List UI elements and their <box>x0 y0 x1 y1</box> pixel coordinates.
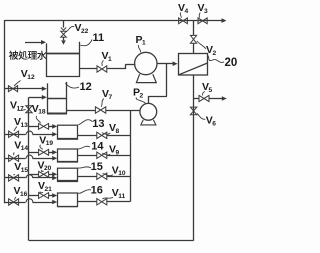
svg-text:3: 3 <box>204 8 208 15</box>
svg-text:4: 4 <box>185 8 189 15</box>
svg-text:17: 17 <box>17 105 25 112</box>
svg-text:12: 12 <box>27 74 35 81</box>
svg-text:15: 15 <box>21 167 29 174</box>
svg-text:22: 22 <box>81 28 89 35</box>
svg-text:19: 19 <box>46 140 54 147</box>
svg-text:11: 11 <box>118 193 125 200</box>
svg-text:8: 8 <box>116 128 120 135</box>
svg-text:2: 2 <box>213 50 217 57</box>
svg-text:13: 13 <box>92 118 104 130</box>
svg-text:20: 20 <box>44 165 52 172</box>
svg-text:20: 20 <box>225 57 238 69</box>
svg-text:5: 5 <box>209 87 213 94</box>
svg-text:11: 11 <box>93 32 105 44</box>
svg-text:12: 12 <box>80 81 92 93</box>
svg-text:14: 14 <box>21 145 29 152</box>
svg-text:14: 14 <box>91 140 104 152</box>
svg-text:15: 15 <box>91 161 103 173</box>
svg-text:18: 18 <box>38 109 46 116</box>
svg-text:6: 6 <box>212 120 216 127</box>
svg-text:16: 16 <box>91 184 103 196</box>
svg-text:13: 13 <box>21 122 29 129</box>
svg-text:9: 9 <box>116 149 120 156</box>
svg-text:21: 21 <box>45 186 53 193</box>
svg-text:2: 2 <box>140 92 144 99</box>
svg-text:1: 1 <box>142 40 146 47</box>
svg-text:1: 1 <box>108 56 112 63</box>
svg-text:16: 16 <box>20 191 28 198</box>
svg-text:7: 7 <box>109 94 113 101</box>
svg-text:10: 10 <box>118 170 126 177</box>
